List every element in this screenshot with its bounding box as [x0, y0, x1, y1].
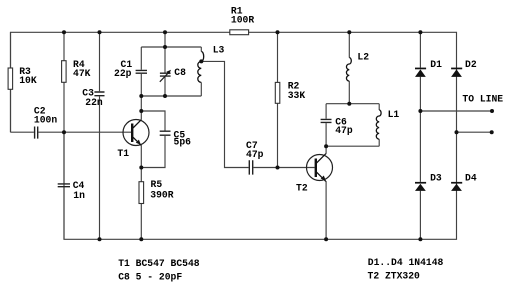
- svg-text:D3: D3: [430, 173, 442, 184]
- svg-text:T1 BC547 BC548: T1 BC547 BC548: [118, 258, 200, 269]
- svg-text:33K: 33K: [288, 90, 306, 101]
- svg-text:1n: 1n: [73, 190, 85, 201]
- svg-text:L1: L1: [388, 109, 400, 120]
- svg-text:T1: T1: [117, 148, 129, 159]
- svg-text:22n: 22n: [85, 97, 103, 108]
- svg-text:D1..D4 1N4148: D1..D4 1N4148: [368, 257, 444, 268]
- svg-text:L2: L2: [357, 52, 369, 63]
- svg-text:47p: 47p: [335, 125, 353, 136]
- svg-text:5p6: 5p6: [174, 137, 192, 148]
- svg-text:D4: D4: [465, 173, 477, 184]
- svg-text:D1: D1: [430, 59, 442, 70]
- svg-text:47K: 47K: [73, 68, 91, 79]
- svg-text:D2: D2: [465, 59, 477, 70]
- svg-text:T2: T2: [296, 183, 308, 194]
- svg-text:47p: 47p: [246, 149, 264, 160]
- svg-text:22p: 22p: [114, 68, 132, 79]
- svg-text:390R: 390R: [150, 190, 173, 201]
- svg-text:10K: 10K: [19, 75, 37, 86]
- svg-text:100n: 100n: [34, 115, 57, 126]
- svg-text:R5: R5: [151, 179, 163, 190]
- svg-text:T2 ZTX320: T2 ZTX320: [368, 271, 421, 282]
- svg-text:100R: 100R: [231, 15, 254, 26]
- svg-text:L3: L3: [213, 44, 225, 55]
- svg-text:TO LINE: TO LINE: [462, 94, 503, 105]
- svg-text:C8: C8: [174, 67, 186, 78]
- svg-text:C8 5 - 20pF: C8 5 - 20pF: [118, 271, 182, 282]
